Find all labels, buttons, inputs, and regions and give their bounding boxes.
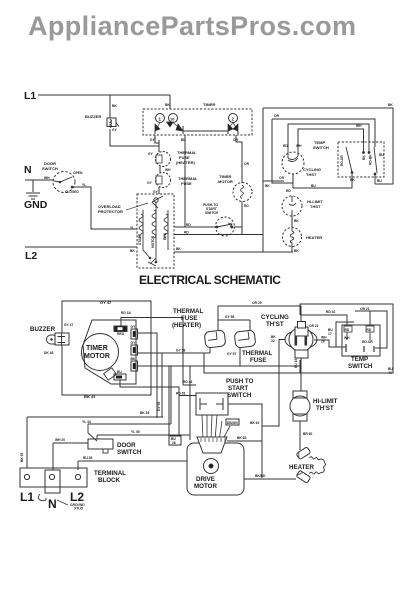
svg-text:RD 42: RD 42 — [326, 310, 336, 314]
svg-text:YL: YL — [130, 226, 134, 230]
svg-text:BK: BK — [388, 103, 393, 107]
svg-text:17: 17 — [328, 332, 332, 336]
thermal fuse F2 (wiring) — [234, 320, 256, 366]
svg-text:BU: BU — [117, 370, 122, 374]
thermal fuse heater F1 (schematic) — [148, 150, 197, 167]
ground — [24, 180, 48, 211]
push to start switch S2 (schematic) — [203, 203, 242, 236]
svg-text:(HEATER): (HEATER) — [172, 322, 201, 329]
svg-text:BU 16: BU 16 — [294, 358, 298, 368]
svg-text:L2: L2 — [25, 250, 37, 262]
wire WH cycling to temp switch — [298, 124, 364, 148]
motor M1 dashed box (schematic) — [137, 194, 174, 268]
title ELECTRICAL SCHEMATIC — [139, 273, 281, 287]
svg-text:SWITCH: SWITCH — [348, 363, 373, 370]
svg-text:GY 58: GY 58 — [225, 315, 234, 319]
svg-text:44: 44 — [388, 371, 392, 375]
svg-text:RD: RD — [184, 231, 189, 235]
svg-text:OR 21: OR 21 — [360, 307, 370, 311]
svg-text:MOTOR: MOTOR — [218, 179, 233, 184]
heater HTR (schematic) — [283, 228, 323, 247]
wire OR to temp switch — [272, 114, 375, 183]
wire BU drop — [181, 135, 186, 227]
push to start switch S2 (wiring) — [196, 378, 254, 415]
cycling thermostat TH1 (schematic) — [282, 124, 369, 177]
wire L1 drop — [20, 417, 27, 468]
wire RD42 — [301, 310, 347, 326]
svg-text:RD: RD — [186, 223, 191, 227]
svg-text:OR: OR — [244, 162, 250, 166]
svg-text:FUSE: FUSE — [181, 315, 198, 322]
node L1 (schematic) — [24, 90, 36, 102]
watermark AppliancePartsPros.com — [28, 11, 356, 41]
svg-text:TERMINAL: TERMINAL — [94, 470, 126, 477]
svg-text:26: 26 — [172, 441, 176, 445]
temp switch S3 (wiring) — [342, 325, 380, 370]
timer connector BU — [114, 370, 196, 436]
svg-text:THERMAL: THERMAL — [242, 350, 272, 357]
svg-text:(HEATER): (HEATER) — [176, 160, 195, 165]
wire RD44 — [176, 380, 196, 396]
svg-text:1: 1 — [159, 117, 162, 122]
svg-text:BK: BK — [112, 104, 117, 108]
svg-text:PUSH TO: PUSH TO — [226, 378, 254, 385]
svg-text:BK 65: BK 65 — [20, 452, 24, 462]
wire GY58 link — [218, 315, 250, 320]
wire fuse to motor box — [153, 187, 159, 194]
wire YL after door switch — [72, 183, 137, 230]
svg-text:GY: GY — [147, 181, 153, 185]
svg-text:26: 26 — [321, 340, 325, 344]
svg-text:RD: RD — [286, 189, 291, 193]
svg-text:2: 2 — [232, 117, 235, 122]
svg-text:BR 60: BR 60 — [303, 432, 313, 436]
node L2 — [25, 250, 37, 262]
thermal fuse label (wiring) — [227, 350, 272, 364]
svg-text:BK: BK — [130, 249, 135, 253]
svg-text:10: 10 — [170, 117, 175, 122]
svg-text:HEATER: HEATER — [289, 464, 315, 471]
svg-text:GY 47: GY 47 — [64, 323, 73, 327]
buzzer BZ (wiring) — [30, 323, 73, 355]
svg-text:GND: GND — [24, 199, 48, 211]
wire right bus top BK — [263, 103, 393, 184]
thermal fuse heater label (wiring) — [172, 308, 203, 329]
svg-text:WH 20: WH 20 — [55, 438, 65, 442]
svg-text:HI-LIMIT: HI-LIMIT — [313, 398, 338, 405]
svg-text:BLOCK: BLOCK — [98, 477, 121, 484]
svg-text:START: START — [138, 234, 142, 245]
svg-text:SWITCH: SWITCH — [117, 449, 142, 456]
heater HTR (wiring) — [289, 447, 326, 483]
wire hi-limit to heater — [292, 216, 299, 228]
svg-text:N: N — [48, 497, 57, 511]
svg-text:32: 32 — [271, 339, 275, 343]
timer connector GY1 — [131, 325, 138, 339]
thermal fuse F1 (wiring) — [204, 320, 226, 353]
connector DB — [226, 419, 239, 425]
wire YL34 — [82, 420, 171, 424]
wire N line — [25, 176, 54, 180]
svg-text:RD: RD — [367, 328, 372, 332]
svg-text:SWITCH: SWITCH — [42, 166, 58, 171]
svg-text:FUSE: FUSE — [250, 357, 267, 364]
wire WH20 — [53, 438, 88, 470]
wire overload pointer — [126, 203, 148, 210]
svg-text:DB/GN: DB/GN — [227, 421, 238, 425]
svg-text:TEMP: TEMP — [351, 356, 368, 363]
svg-text:GY 47: GY 47 — [100, 300, 112, 305]
wire fuse link — [160, 167, 171, 174]
node N — [24, 164, 32, 176]
svg-text:BU: BU — [311, 184, 316, 188]
wire L1 line — [38, 94, 170, 96]
svg-text:RD 44: RD 44 — [183, 380, 193, 384]
svg-text:RD-BK: RD-BK — [369, 154, 373, 165]
wire BKRD heater bottom — [244, 474, 296, 479]
svg-text:OPEN: OPEN — [73, 171, 83, 175]
svg-text:SWITCH: SWITCH — [205, 211, 219, 215]
wire BU16 — [294, 358, 301, 391]
cycling thermostat TH1 (wiring) — [261, 314, 319, 358]
svg-text:GY: GY — [150, 138, 156, 142]
timer connector RED — [114, 311, 132, 336]
timer contact 10 — [167, 114, 184, 132]
svg-text:RD-51: RD-51 — [176, 392, 186, 396]
timer contact 1 — [155, 114, 165, 132]
svg-text:BK: BK — [362, 155, 366, 160]
svg-text:L1: L1 — [24, 90, 36, 102]
svg-text:BK: BK — [165, 103, 170, 107]
svg-text:SWITCH: SWITCH — [313, 145, 329, 150]
timer T1 dashed box (schematic) — [143, 102, 252, 135]
wire BK heater return — [174, 247, 293, 252]
wire BR60 — [300, 421, 313, 450]
door switch S1 (wiring) — [88, 424, 142, 456]
wire GY58b — [176, 349, 204, 374]
svg-text:GY: GY — [131, 325, 137, 329]
svg-text:FUSE: FUSE — [181, 181, 192, 186]
wire YL50 — [97, 366, 190, 440]
wire L2 line — [25, 247, 137, 253]
svg-text:OR: OR — [233, 138, 239, 142]
svg-text:DK 48: DK 48 — [44, 351, 54, 355]
svg-text:BK: BK — [294, 249, 299, 253]
wire push start bottom fan — [202, 415, 230, 441]
svg-text:BK: BK — [131, 357, 136, 361]
timer motor TM (schematic) — [218, 174, 252, 208]
motor bottom contacts — [143, 250, 157, 266]
wire GY47 out — [138, 333, 158, 418]
svg-text:GY 57: GY 57 — [227, 352, 236, 356]
temp switch S3 dashed box (schematic) — [313, 140, 384, 184]
wire vertical bus A — [263, 108, 293, 252]
svg-text:RD: RD — [283, 144, 288, 148]
wire BU hi-limit top — [293, 174, 355, 188]
wire GY out2 — [138, 353, 211, 417]
wire RD3A — [121, 318, 183, 386]
svg-text:SWITCH: SWITCH — [227, 392, 252, 399]
svg-text:BK: BK — [350, 178, 355, 182]
door switch S1 (schematic) — [42, 161, 83, 194]
svg-text:RD-OR: RD-OR — [362, 340, 373, 344]
node N (wiring) — [48, 497, 57, 511]
svg-text:YL: YL — [82, 183, 86, 187]
svg-text:DOOR: DOOR — [117, 442, 136, 449]
svg-text:RUN: RUN — [163, 232, 167, 240]
svg-text:L1: L1 — [20, 490, 34, 504]
svg-text:BK/RD: BK/RD — [255, 474, 266, 478]
svg-text:OR: OR — [274, 114, 280, 118]
svg-text:WH: WH — [44, 176, 50, 180]
svg-text:GY: GY — [148, 152, 154, 156]
svg-text:RD-OR: RD-OR — [340, 155, 344, 166]
wire BK drop to buzzer — [110, 95, 117, 118]
svg-text:GY: GY — [153, 190, 159, 194]
buzzer BZ (schematic) — [85, 114, 119, 132]
svg-text:BU 28: BU 28 — [83, 456, 93, 460]
wire heater bottom — [292, 246, 299, 253]
wire timer motor to push start junction — [241, 202, 243, 235]
wire RD motor to push start — [174, 223, 263, 235]
wire BK62 — [227, 335, 285, 478]
svg-text:DRIVE: DRIVE — [196, 476, 215, 483]
svg-text:MOTOR: MOTOR — [151, 235, 155, 248]
node L2 (wiring) — [70, 490, 84, 504]
svg-text:TH'ST: TH'ST — [316, 405, 334, 412]
svg-text:MOTOR: MOTOR — [84, 353, 110, 360]
svg-text:BK 43: BK 43 — [84, 394, 96, 399]
wire WH26 — [314, 336, 346, 348]
motor start winding — [138, 210, 143, 250]
svg-text:CLOSED: CLOSED — [65, 190, 79, 194]
right enclosure box (wiring) — [204, 304, 393, 375]
thermal fuse F2 (schematic) — [147, 173, 198, 188]
svg-text:N: N — [24, 164, 32, 176]
svg-text:WH: WH — [165, 168, 171, 172]
overload protector label — [98, 204, 123, 214]
node L1 (wiring) — [20, 490, 34, 504]
wire BU28 — [78, 436, 187, 470]
svg-text:GY 59: GY 59 — [157, 402, 161, 411]
svg-text:GY 58: GY 58 — [176, 349, 185, 353]
svg-text:RD: RD — [244, 204, 249, 208]
svg-text:BUZZER: BUZZER — [85, 114, 101, 119]
svg-text:OR: OR — [279, 176, 285, 180]
svg-text:TH'ST: TH'ST — [266, 321, 284, 328]
centrifugal switch — [152, 196, 163, 208]
svg-text:PROTECTOR: PROTECTOR — [98, 209, 123, 214]
svg-text:BK: BK — [294, 219, 299, 223]
svg-text:THERMAL: THERMAL — [173, 308, 203, 315]
hi-limit thermostat TH2 (schematic) — [282, 196, 323, 216]
wire OR drop to timer motor — [233, 135, 250, 183]
svg-text:WH: WH — [356, 124, 362, 128]
svg-text:OR 29: OR 29 — [252, 301, 262, 305]
hi-limit thermostat TH2 (wiring) — [290, 391, 338, 421]
svg-text:BU: BU — [181, 138, 186, 142]
svg-text:BU: BU — [379, 153, 384, 157]
timer connector GY2 — [131, 341, 138, 355]
svg-text:ELECTRICAL SCHEMATIC: ELECTRICAL SCHEMATIC — [139, 273, 281, 287]
svg-text:BU: BU — [377, 179, 382, 183]
svg-text:YL 34: YL 34 — [82, 420, 91, 424]
wire buzzer to thermal fuse — [110, 129, 159, 152]
terminal block TB — [20, 468, 126, 493]
wire BU17 — [328, 322, 354, 347]
svg-text:RED: RED — [117, 332, 125, 336]
svg-text:WH: WH — [296, 144, 302, 148]
svg-text:OR 21: OR 21 — [309, 324, 319, 328]
wire OR21 — [355, 307, 387, 348]
svg-text:STUD: STUD — [74, 507, 84, 511]
svg-text:RD: RD — [345, 328, 350, 332]
wire BK out — [138, 366, 241, 436]
svg-text:START: START — [228, 385, 248, 392]
svg-text:BK 53: BK 53 — [140, 411, 150, 415]
svg-text:GY: GY — [131, 341, 137, 345]
wire timer internal — [155, 126, 238, 134]
svg-text:AppliancePartsPros.com: AppliancePartsPros.com — [28, 11, 356, 41]
timer motor TM (wiring) — [82, 320, 137, 384]
drive motor DM (wiring) — [187, 437, 244, 495]
wire GY57 — [240, 365, 301, 367]
wire cycling bottom — [286, 174, 293, 193]
svg-text:BK: BK — [265, 184, 270, 188]
svg-text:GY: GY — [112, 128, 118, 132]
timer connector BK — [131, 357, 138, 371]
svg-text:THST: THST — [310, 204, 321, 209]
svg-text:WH: WH — [344, 336, 350, 340]
svg-text:HEATER: HEATER — [306, 235, 322, 240]
wire OR29 — [218, 301, 301, 322]
wire BK55 — [27, 411, 163, 417]
svg-text:L2: L2 — [70, 490, 84, 504]
motor run winding — [163, 210, 168, 250]
timer contact 2 — [228, 114, 238, 132]
svg-text:MOTOR: MOTOR — [194, 483, 217, 490]
timer box (wiring) — [62, 300, 151, 399]
ground stud — [38, 494, 85, 511]
svg-text:BK 62: BK 62 — [250, 421, 260, 425]
svg-text:CYCLING: CYCLING — [261, 314, 289, 321]
svg-text:BUZZER: BUZZER — [30, 326, 56, 333]
svg-text:TIMER: TIMER — [86, 345, 108, 352]
svg-text:RD 3A: RD 3A — [121, 311, 132, 315]
wire BK into timer — [165, 95, 170, 109]
motor main winding — [151, 202, 156, 258]
svg-text:YL 50: YL 50 — [131, 430, 140, 434]
svg-text:THST: THST — [306, 172, 317, 177]
svg-text:BK: BK — [176, 247, 181, 251]
svg-text:TIMER: TIMER — [203, 102, 216, 107]
wire GY drop — [150, 135, 159, 143]
svg-text:BK 65: BK 65 — [237, 436, 247, 440]
